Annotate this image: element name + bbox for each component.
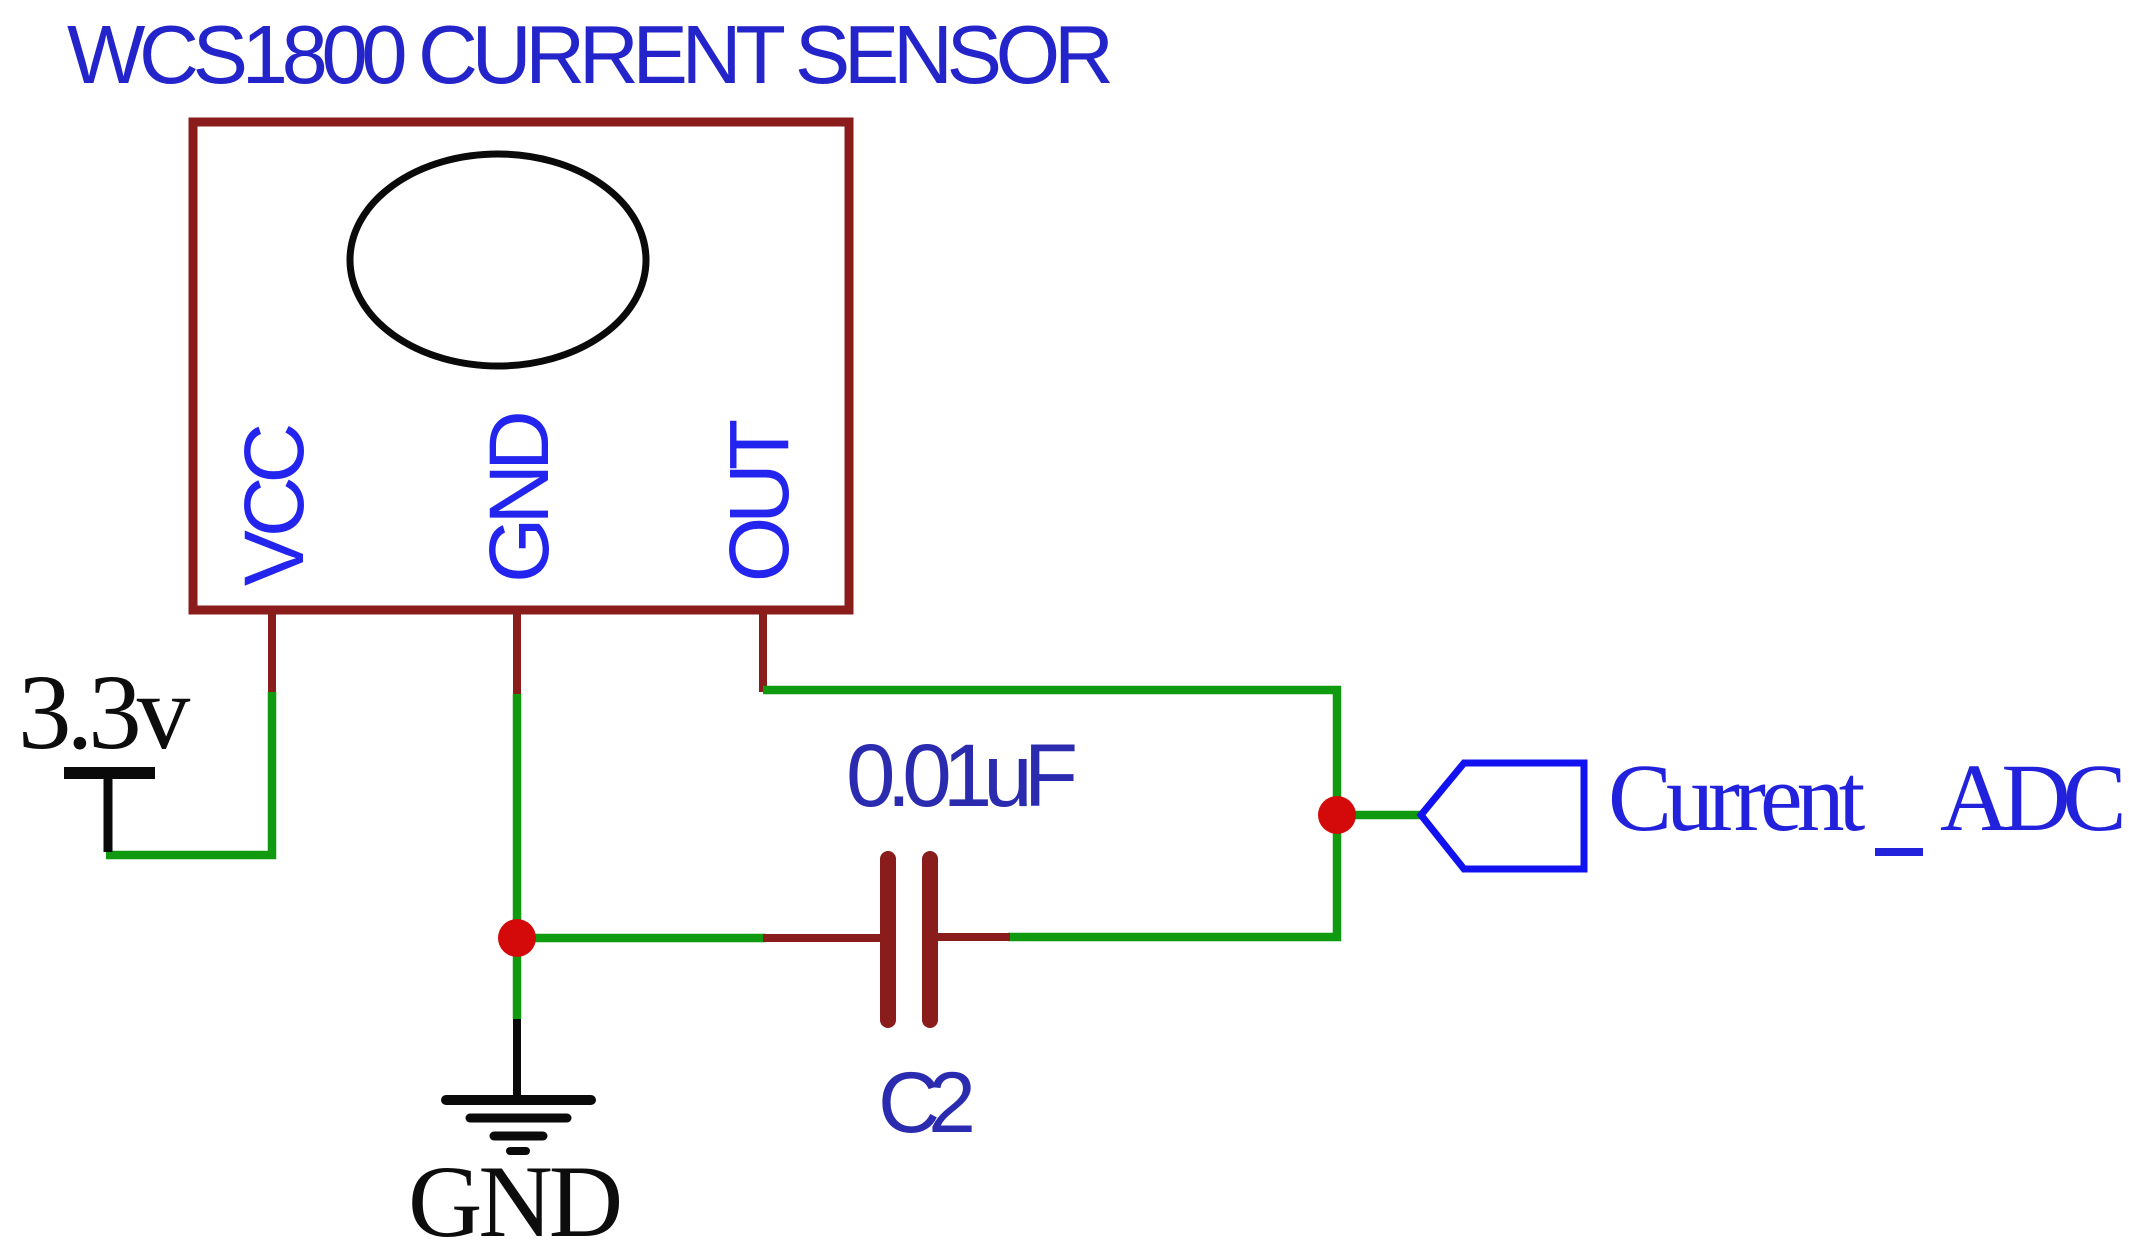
svg-text:C2: C2 [878,1055,972,1151]
power symbol 3.3v stem [104,773,113,852]
svg-text:GND: GND [472,414,566,583]
svg-text:ADC: ADC [1940,744,2122,851]
svg-text:WCS1800 CURRENT SENSOR: WCS1800 CURRENT SENSOR [67,8,1111,101]
junction dot at GND node [498,919,536,957]
junction dot at OUT node [1318,796,1356,834]
ground symbol line 2 [470,1114,567,1123]
svg-text:0.01uF: 0.01uF [846,725,1075,825]
wire VCC to 3.3v [106,692,272,855]
sensor aperture ellipse [350,154,646,366]
svg-text:Current: Current [1608,744,1866,851]
ground symbol line 4 [510,1147,526,1155]
wire GND junction to capacitor [517,934,766,943]
net tag Current_ADC shape [1421,763,1584,869]
ground stem [513,1019,521,1101]
capacitor C2 left lead [763,934,881,942]
wire node to tag [1337,811,1421,820]
svg-text:VCC: VCC [227,425,321,586]
power symbol 3.3v bar [64,767,155,779]
capacitor C2 left plate [880,859,896,1020]
capacitor C2 right lead [930,933,1010,941]
capacitor C2 right plate [922,859,938,1020]
pin stub OUT [759,610,767,692]
svg-text:OUT: OUT [712,420,806,582]
ground symbol line 1 [446,1095,591,1105]
wire GND pin down [513,694,522,1019]
svg-text:GND: GND [408,1145,620,1257]
net label underscore [1875,848,1923,856]
svg-text:3.3v: 3.3v [18,654,191,772]
pin stub VCC [268,610,276,694]
ground symbol line 3 [494,1132,543,1141]
wire OUT to node and down to capacitor [763,690,1337,937]
sensor body U? box [193,122,849,610]
pin stub GND [513,610,521,696]
